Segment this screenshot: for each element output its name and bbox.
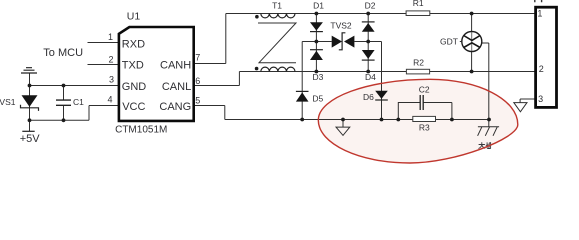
svg-text:T1: T1 (272, 0, 282, 10)
svg-text:GND: GND (122, 81, 147, 93)
svg-text:CANL: CANL (162, 81, 191, 93)
svg-text:U1: U1 (127, 11, 141, 23)
svg-text:R3: R3 (419, 122, 430, 132)
svg-text:D4: D4 (365, 72, 376, 82)
svg-text:C2: C2 (419, 84, 430, 94)
svg-text:D1: D1 (313, 1, 324, 11)
svg-text:TXD: TXD (122, 60, 144, 72)
svg-text:C1: C1 (73, 97, 84, 107)
svg-text:VCC: VCC (122, 101, 145, 113)
svg-text:5: 5 (195, 96, 200, 106)
svg-text:D2: D2 (365, 1, 376, 11)
svg-text:D5: D5 (312, 93, 323, 103)
svg-text:4: 4 (107, 95, 112, 105)
svg-text:R1: R1 (413, 0, 424, 8)
svg-text:D3: D3 (313, 72, 324, 82)
svg-text:6: 6 (195, 76, 200, 86)
svg-text:CANG: CANG (159, 101, 191, 113)
svg-text:2: 2 (539, 64, 544, 74)
svg-text:7: 7 (195, 52, 200, 62)
svg-text:R2: R2 (413, 57, 424, 67)
svg-text:TVS1: TVS1 (0, 97, 16, 107)
svg-text:+5V: +5V (20, 133, 41, 145)
svg-text:RXD: RXD (122, 38, 145, 50)
svg-text:3: 3 (538, 94, 543, 104)
svg-text:2: 2 (108, 55, 113, 65)
svg-text:GDT: GDT (440, 37, 458, 47)
svg-text:TVS2: TVS2 (330, 20, 352, 30)
svg-text:1: 1 (108, 32, 113, 42)
svg-text:To MCU: To MCU (43, 47, 83, 59)
svg-text:D6: D6 (363, 92, 374, 102)
svg-text:1: 1 (537, 8, 542, 18)
svg-text:CANH: CANH (160, 60, 191, 72)
svg-text:CTM1051M: CTM1051M (115, 125, 167, 136)
svg-text:3: 3 (109, 75, 114, 85)
